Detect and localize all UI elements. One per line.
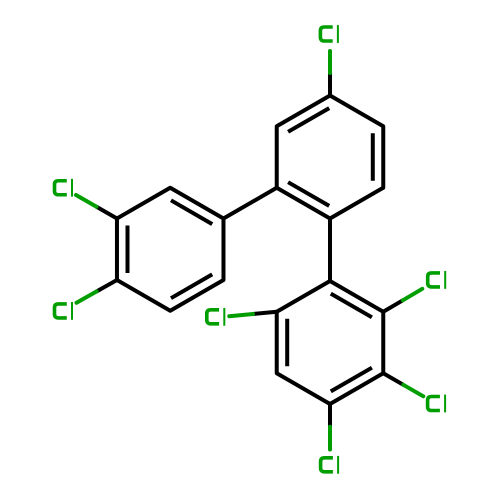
bond C4-Cl bottom, carbon half [328,404,332,427]
bond C6-Cl middle, chlorine half [229,314,253,316]
ring B double bond B1-B2 inner line [171,200,212,224]
benzene ring C (bottom right) outline [277,281,384,404]
bond C2-Cl upper right, carbon half [383,300,403,311]
ring C double bond C5-C6 inner line [285,319,289,366]
biphenyl bond A4-C1 [328,219,332,282]
benzene ring A (top right) outline [277,96,384,219]
Cl label on ring A top [320,25,339,43]
Cl label middle (ring C position 6) [207,308,226,326]
biphenyl bond A5-B2 [223,188,276,219]
Cl label bottom [321,456,340,474]
bond A1-Cl top, carbon half [328,73,332,96]
bond B6-Cl upper left, chlorine half [76,195,97,207]
Cl label lower left [55,302,74,320]
ring C double bond C1-C2 inner line [331,294,372,318]
bond C4-Cl bottom, chlorine half [328,427,332,450]
benzene ring B (left) outline [117,188,224,311]
bond B5-Cl lower left, chlorine half [77,291,97,302]
ring A double bond A4-A5 inner line [288,182,329,206]
Cl label upper left [55,179,74,197]
bond C6-Cl middle, carbon half [253,312,277,314]
bond C2-Cl upper right, chlorine half [403,289,423,301]
bond C3-Cl lower right, carbon half [383,373,403,385]
bond A1-Cl top, chlorine half [328,51,332,73]
Cl label upper right [428,271,447,289]
ring B double bond B5-B6 inner line [126,226,130,274]
bond C3-Cl lower right, chlorine half [403,385,423,397]
ring A double bond A6-A1 inner line [288,108,329,132]
bond B6-Cl upper left, carbon half [97,207,117,219]
bond B5-Cl lower left, carbon half [97,280,117,291]
ring B double bond B3-B4 inner line [171,274,212,298]
ring C double bond C3-C4 inner line [331,368,372,392]
Cl label lower right [428,395,447,413]
ring A double bond A2-A3 inner line [371,133,375,181]
